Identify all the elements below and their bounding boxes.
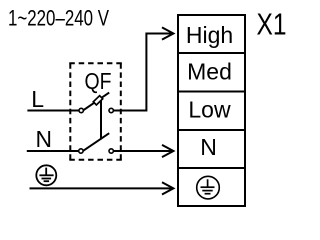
svg-text:High: High bbox=[186, 22, 233, 48]
breaker pole L blade bbox=[83, 93, 109, 111]
svg-text:X1: X1 bbox=[257, 6, 287, 41]
wire N input bbox=[27, 150, 79, 152]
arrowhead into N bbox=[162, 145, 173, 157]
svg-text:Low: Low bbox=[188, 97, 231, 123]
terminal block X1 outline bbox=[177, 15, 246, 206]
svg-text:N: N bbox=[36, 126, 53, 152]
svg-text:1~220–240 V: 1~220–240 V bbox=[8, 6, 109, 31]
svg-text:Med: Med bbox=[187, 59, 232, 85]
breaker pole N right contact bbox=[109, 149, 113, 153]
breaker pole L left contact bbox=[79, 108, 83, 112]
arrowhead into High bbox=[162, 27, 173, 39]
earth wire to PE terminal bbox=[30, 187, 173, 189]
wire N to N terminal bbox=[113, 150, 172, 152]
breaker QF dashed enclosure bbox=[69, 63, 122, 160]
breaker pole L right contact bbox=[109, 108, 113, 112]
breaker pole N blade bbox=[83, 133, 109, 151]
breaker pole N left contact bbox=[79, 149, 83, 153]
svg-text:QF: QF bbox=[85, 68, 112, 94]
breaker thermal element tick bbox=[93, 96, 102, 105]
svg-text:N: N bbox=[200, 134, 217, 160]
wire L to High terminal bbox=[113, 34, 172, 111]
wire L input bbox=[27, 110, 79, 112]
earth symbol in X1 bottom cell bbox=[197, 176, 220, 199]
protective earth symbol at supply bbox=[36, 165, 56, 185]
arrowhead into PE bbox=[162, 182, 173, 194]
svg-text:L: L bbox=[31, 86, 44, 112]
breaker mechanical linkage bbox=[100, 100, 102, 140]
